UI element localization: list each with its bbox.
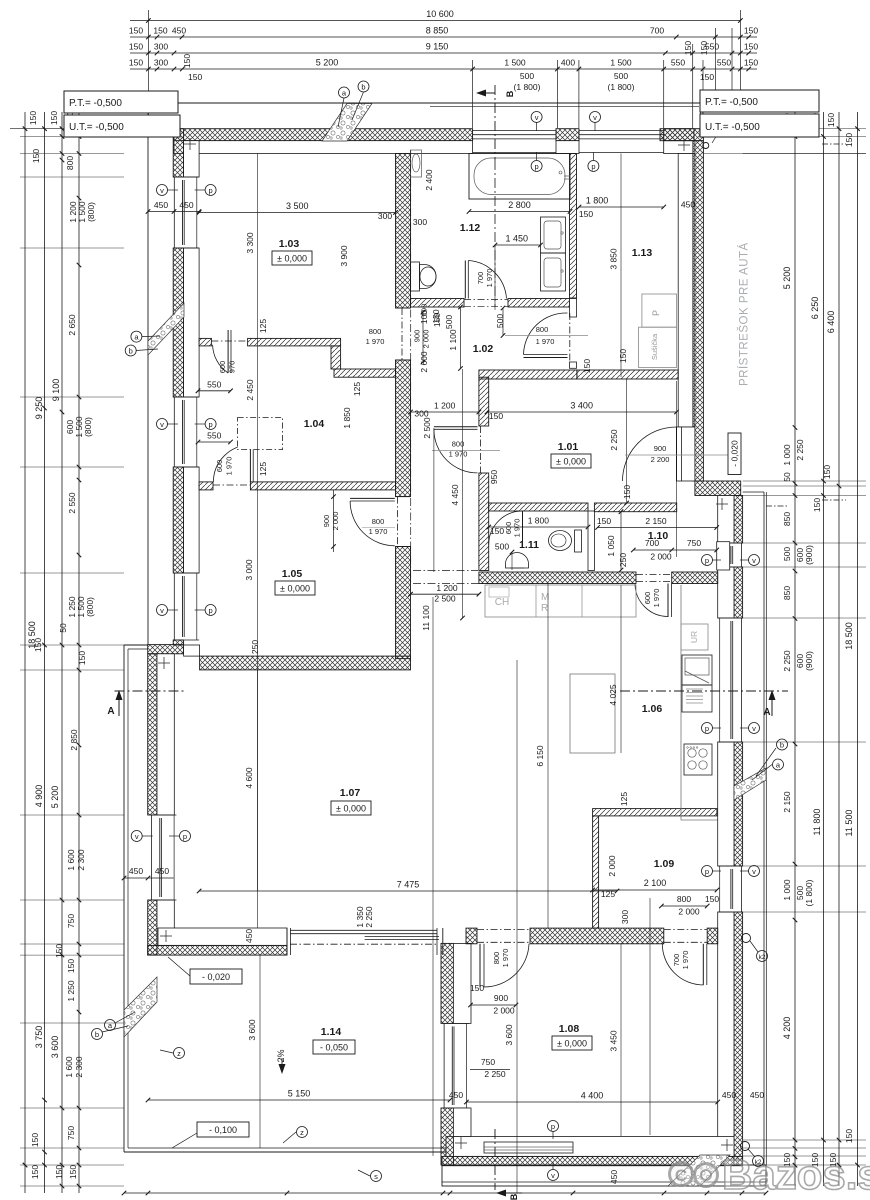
svg-text:k2: k2 bbox=[759, 954, 766, 961]
marker circles terrace window 1.07 bbox=[275, 995, 277, 997]
dim 2800 bathtub bbox=[469, 211, 570, 213]
wall 1.03|1.12 vertical (core wall) bbox=[396, 154, 411, 309]
svg-text:700: 700 bbox=[650, 26, 664, 36]
svg-text:125: 125 bbox=[601, 889, 615, 899]
dim 3500 room 1.03 bbox=[199, 212, 395, 214]
gravel band left wall with callout a b bbox=[148, 303, 184, 355]
window right wall W9 (1.09) bbox=[730, 869, 732, 909]
entrance door opening right wall bbox=[677, 427, 695, 481]
svg-text:250: 250 bbox=[618, 553, 628, 567]
svg-text:b: b bbox=[129, 347, 133, 356]
svg-text:A: A bbox=[763, 707, 770, 718]
right horizontal extension lines bbox=[743, 136, 866, 138]
svg-text:1 970: 1 970 bbox=[366, 337, 385, 346]
svg-text:b: b bbox=[780, 741, 784, 750]
svg-text:1 250: 1 250 bbox=[66, 980, 76, 1002]
window left wall W5 (1.05) bbox=[173, 573, 175, 640]
partition 1.13 south P11 bbox=[577, 370, 678, 379]
svg-text:11 100: 11 100 bbox=[421, 605, 431, 631]
svg-text:1 600: 1 600 bbox=[64, 1056, 74, 1078]
svg-text:450: 450 bbox=[681, 200, 695, 210]
svg-text:150: 150 bbox=[182, 54, 192, 68]
wall exterior right lower - insulation bbox=[734, 496, 743, 544]
svg-text:1.01: 1.01 bbox=[558, 441, 579, 453]
svg-text:150: 150 bbox=[129, 26, 143, 36]
wall 1.04|hall vertical segment below door1 bbox=[396, 360, 411, 497]
svg-text:1 450: 1 450 bbox=[505, 234, 528, 244]
corridor wall axis dashdot lines bbox=[413, 570, 478, 572]
svg-text:800: 800 bbox=[369, 327, 382, 336]
svg-text:3 900: 3 900 bbox=[339, 245, 349, 267]
svg-text:PRÍSTREŠOK PRE AUTÁ: PRÍSTREŠOK PRE AUTÁ bbox=[738, 242, 751, 386]
svg-text:150: 150 bbox=[579, 209, 593, 219]
svg-text:p: p bbox=[705, 724, 709, 733]
svg-text:2 000: 2 000 bbox=[607, 855, 617, 877]
svg-text:700: 700 bbox=[672, 954, 681, 967]
watermark Bazos.sk bbox=[670, 1151, 870, 1198]
svg-text:550: 550 bbox=[207, 379, 221, 389]
svg-text:500: 500 bbox=[520, 71, 534, 81]
svg-text:150: 150 bbox=[153, 26, 167, 36]
svg-text:1.06: 1.06 bbox=[642, 703, 663, 715]
toilet 1.12 bbox=[411, 262, 420, 291]
door 1.02 to 1.12 swing bbox=[464, 299, 508, 301]
room 1.08 level box bbox=[552, 1036, 592, 1050]
right chain ticks bbox=[793, 134, 798, 139]
svg-text:z: z bbox=[177, 1049, 181, 1058]
svg-text:500: 500 bbox=[444, 315, 454, 329]
terrace / lower roof outline left (double line) bbox=[123, 645, 125, 1152]
svg-text:1 970: 1 970 bbox=[225, 457, 234, 476]
svg-text:Sušička: Sušička bbox=[650, 333, 659, 360]
marker circles left wall windows bbox=[157, 185, 168, 196]
dryer Susicka box 1.13 bbox=[639, 327, 677, 367]
svg-text:v: v bbox=[160, 606, 164, 615]
svg-text:11 800: 11 800 bbox=[812, 809, 822, 836]
svg-text:800: 800 bbox=[65, 156, 75, 170]
svg-text:5 200: 5 200 bbox=[316, 58, 339, 68]
svg-text:2 250: 2 250 bbox=[782, 650, 792, 672]
level table P.T. U.T. right bbox=[700, 90, 819, 112]
entrance door leaf and swing bbox=[676, 427, 678, 481]
wall exterior left lower - insulation bbox=[148, 654, 157, 815]
wall south of living 1.07 - masonry bbox=[158, 928, 287, 945]
svg-text:3 000: 3 000 bbox=[244, 559, 254, 581]
svg-text:900: 900 bbox=[654, 444, 667, 453]
svg-text:150: 150 bbox=[826, 113, 836, 127]
svg-text:1 800: 1 800 bbox=[586, 196, 609, 206]
svg-text:11 500: 11 500 bbox=[844, 810, 854, 837]
oven stack bbox=[682, 655, 712, 685]
svg-text:150: 150 bbox=[744, 58, 758, 68]
svg-text:600: 600 bbox=[643, 592, 652, 605]
wall exterior bottom (1.08) - masonry bbox=[446, 1137, 734, 1157]
svg-text:C: C bbox=[675, 1166, 687, 1185]
svg-text:18 500: 18 500 bbox=[844, 622, 854, 650]
svg-text:500: 500 bbox=[782, 547, 792, 561]
dim 450 450 at window W3 bbox=[148, 211, 199, 213]
svg-text:100: 100 bbox=[419, 310, 429, 324]
toilet 1.11 bbox=[575, 530, 582, 552]
svg-text:1 970: 1 970 bbox=[501, 949, 510, 968]
svg-text:150: 150 bbox=[618, 349, 628, 363]
svg-text:± 0,000: ± 0,000 bbox=[557, 1039, 587, 1049]
svg-text:300: 300 bbox=[154, 58, 168, 68]
svg-text:18 500: 18 500 bbox=[27, 621, 37, 649]
svg-text:1.12: 1.12 bbox=[460, 222, 481, 234]
washbasin 1.12 top-left bbox=[411, 150, 422, 177]
svg-text:3 400: 3 400 bbox=[570, 401, 593, 411]
svg-text:v: v bbox=[160, 186, 164, 195]
marker z terrace 2 bbox=[297, 1127, 308, 1138]
partition hall north P3 bbox=[479, 370, 577, 379]
bathtub 1.12 bbox=[469, 154, 570, 200]
door 1.02-1.13 leaf and swing bbox=[524, 354, 568, 356]
svg-text:550: 550 bbox=[671, 58, 685, 68]
svg-text:1.13: 1.13 bbox=[632, 247, 653, 259]
section line B top bbox=[494, 85, 496, 160]
svg-text:4 025: 4 025 bbox=[608, 684, 618, 706]
dim 1800 room 1.13 bbox=[579, 206, 664, 208]
svg-text:U.T.= -0,500: U.T.= -0,500 bbox=[705, 122, 760, 133]
svg-text:50: 50 bbox=[58, 623, 68, 633]
svg-text:1 050: 1 050 bbox=[606, 535, 616, 557]
dim 1200 2500 corridor bbox=[411, 593, 479, 595]
svg-text:150: 150 bbox=[822, 465, 832, 479]
svg-text:p: p bbox=[591, 162, 595, 171]
svg-text:150: 150 bbox=[49, 111, 59, 125]
svg-text:450: 450 bbox=[750, 1090, 764, 1100]
partition 1.11 north bbox=[489, 503, 588, 511]
svg-text:150: 150 bbox=[582, 359, 592, 373]
wall between kitchen/1.09 and 1.08 bbox=[466, 928, 477, 944]
svg-text:7 475: 7 475 bbox=[397, 880, 420, 890]
svg-text:550: 550 bbox=[207, 431, 221, 441]
svg-text:2 250: 2 250 bbox=[609, 429, 619, 451]
room 1.03 level box bbox=[272, 251, 312, 265]
svg-text:p: p bbox=[535, 162, 539, 171]
dimension chain left outer 18500 bbox=[24, 112, 26, 1193]
wall exterior right lower - masonry bbox=[718, 496, 734, 544]
svg-text:150: 150 bbox=[129, 58, 143, 68]
svg-text:- 0,100: - 0,100 bbox=[209, 1125, 237, 1135]
svg-text:2 000: 2 000 bbox=[422, 330, 431, 349]
partition hall|1.11 vertical bbox=[479, 377, 489, 426]
svg-text:2 250: 2 250 bbox=[795, 439, 805, 461]
svg-text:(900): (900) bbox=[804, 651, 814, 671]
svg-text:150: 150 bbox=[470, 983, 484, 993]
wall exterior right upper - masonry bbox=[678, 154, 695, 428]
door 1.05 leaf and swing bbox=[350, 497, 395, 499]
svg-text:B: B bbox=[509, 1193, 519, 1200]
svg-text:150: 150 bbox=[700, 72, 714, 82]
roof outline top and upper-left bbox=[148, 102, 702, 104]
right dashdot reference marks bbox=[822, 143, 846, 145]
svg-text:1 970: 1 970 bbox=[681, 951, 690, 970]
svg-text:850: 850 bbox=[782, 512, 792, 526]
svg-text:P.T.= -0,500: P.T.= -0,500 bbox=[705, 97, 758, 108]
room 1.01 level box bbox=[551, 454, 591, 468]
svg-text:150: 150 bbox=[812, 498, 822, 512]
wall exterior left upper - insulation bbox=[173, 129, 183, 177]
svg-text:900: 900 bbox=[494, 993, 508, 1003]
svg-text:150: 150 bbox=[188, 72, 202, 82]
washer P box 1.13 bbox=[642, 294, 677, 327]
svg-text:150: 150 bbox=[68, 1165, 78, 1179]
svg-text:2 000: 2 000 bbox=[331, 512, 340, 531]
partition 1.11|1.10 vertical bbox=[588, 511, 594, 571]
svg-text:1.11: 1.11 bbox=[519, 539, 539, 551]
svg-text:- 0,020: - 0,020 bbox=[202, 972, 230, 982]
partition 1.03|1.04 P1 bbox=[199, 338, 211, 346]
svg-text:A: A bbox=[107, 706, 114, 717]
svg-text:(1 800): (1 800) bbox=[804, 879, 814, 906]
svg-text:1.04: 1.04 bbox=[304, 418, 325, 430]
svg-text:150: 150 bbox=[844, 133, 854, 147]
svg-text:600: 600 bbox=[218, 361, 227, 374]
kitchen north wall P4 bbox=[479, 572, 636, 584]
wall right jog horizontal bbox=[695, 481, 741, 496]
svg-text:1 970: 1 970 bbox=[485, 269, 494, 288]
svg-text:2 000: 2 000 bbox=[493, 1006, 515, 1016]
svg-text:v: v bbox=[535, 113, 539, 122]
svg-text:5 200: 5 200 bbox=[782, 267, 792, 290]
svg-text:s: s bbox=[374, 1172, 378, 1181]
svg-text:1 100: 1 100 bbox=[448, 329, 458, 351]
svg-text:B: B bbox=[505, 90, 515, 97]
svg-text:1 500: 1 500 bbox=[610, 58, 632, 68]
svg-text:300: 300 bbox=[620, 910, 630, 924]
dim verticals room 1.03 bbox=[257, 154, 259, 892]
svg-text:6 400: 6 400 bbox=[826, 311, 836, 334]
svg-text:750: 750 bbox=[66, 1126, 76, 1140]
svg-text:1.07: 1.07 bbox=[340, 787, 361, 799]
svg-text:150: 150 bbox=[844, 1129, 854, 1143]
svg-text:850: 850 bbox=[782, 586, 792, 600]
wall west of 1.08 - lower bbox=[441, 1108, 453, 1165]
svg-text:450: 450 bbox=[179, 200, 193, 210]
svg-text:150: 150 bbox=[744, 26, 758, 36]
svg-text:(800): (800) bbox=[86, 202, 96, 222]
svg-text:3 600: 3 600 bbox=[50, 1036, 60, 1059]
partition P1 jog bbox=[331, 346, 341, 369]
pavement strip bottom right bbox=[442, 1165, 766, 1186]
svg-text:1 500: 1 500 bbox=[504, 58, 526, 68]
svg-text:450: 450 bbox=[172, 26, 186, 36]
level box -0,020 bottom-left bbox=[190, 969, 242, 984]
svg-text:2 200: 2 200 bbox=[651, 455, 670, 464]
svg-text:1.14: 1.14 bbox=[321, 1026, 342, 1038]
door to 1.11 swing bbox=[488, 503, 490, 545]
dimension chain top row segments bbox=[130, 68, 757, 70]
kitchen right counter line bbox=[680, 585, 682, 820]
svg-text:300: 300 bbox=[378, 211, 392, 221]
svg-text:400: 400 bbox=[561, 58, 575, 68]
svg-text:10 600: 10 600 bbox=[426, 9, 454, 19]
partition 1.09 north bbox=[593, 809, 717, 816]
svg-text:1 970: 1 970 bbox=[536, 337, 555, 346]
svg-text:5 150: 5 150 bbox=[288, 1089, 311, 1099]
svg-text:R: R bbox=[541, 603, 548, 614]
svg-text:b: b bbox=[361, 83, 365, 92]
svg-text:(900): (900) bbox=[804, 545, 814, 565]
svg-text:v: v bbox=[593, 113, 597, 122]
window top wall W2 (1.13) bbox=[579, 130, 664, 132]
svg-text:2 650: 2 650 bbox=[67, 314, 77, 336]
svg-text:± 0,000: ± 0,000 bbox=[280, 584, 310, 594]
svg-text:5 200: 5 200 bbox=[50, 786, 60, 809]
cooktop bbox=[684, 744, 712, 775]
svg-text:450: 450 bbox=[129, 866, 143, 876]
svg-text:1.10: 1.10 bbox=[648, 530, 669, 542]
svg-text:p: p bbox=[209, 606, 213, 615]
svg-text:150: 150 bbox=[54, 1165, 64, 1179]
carport column K2 pavement corner bbox=[741, 1142, 750, 1151]
svg-text:125: 125 bbox=[258, 462, 268, 476]
svg-text:P.T.= -0,500: P.T.= -0,500 bbox=[69, 98, 122, 109]
svg-text:450: 450 bbox=[244, 929, 254, 943]
svg-text:2 400: 2 400 bbox=[424, 169, 434, 191]
svg-text:2 250: 2 250 bbox=[484, 1069, 506, 1079]
dim 1450 vanity bbox=[495, 244, 541, 246]
corner cross marks bbox=[184, 143, 196, 145]
svg-text:1 800: 1 800 bbox=[528, 516, 550, 526]
svg-text:p: p bbox=[705, 556, 709, 565]
svg-text:450: 450 bbox=[609, 1170, 619, 1184]
window right wall W7 (1.10) bbox=[730, 546, 732, 564]
window top wall W1 (1.12) bbox=[473, 130, 556, 132]
svg-text:450: 450 bbox=[722, 1090, 736, 1100]
dimension chain bottom bbox=[124, 1192, 766, 1194]
wall south 1.05 horizontal bbox=[200, 656, 411, 670]
dim room 1.14 bbox=[148, 1099, 450, 1101]
svg-text:v: v bbox=[551, 1171, 555, 1180]
svg-text:450: 450 bbox=[154, 200, 168, 210]
svg-text:150: 150 bbox=[622, 485, 632, 499]
svg-text:300: 300 bbox=[414, 409, 428, 419]
gravel band east wall with callout a b bbox=[734, 768, 766, 800]
svg-text:p: p bbox=[183, 832, 187, 841]
svg-text:z: z bbox=[300, 1128, 304, 1137]
level box -0,020 right (rotated) bbox=[728, 433, 741, 475]
wall south of living 1.07 - insulation bbox=[148, 945, 287, 955]
svg-text:(1 800): (1 800) bbox=[514, 82, 541, 92]
svg-text:(800): (800) bbox=[85, 597, 95, 617]
dimension chain top row 10600 bbox=[130, 20, 740, 22]
svg-text:150: 150 bbox=[683, 41, 693, 55]
svg-text:8 850: 8 850 bbox=[426, 26, 449, 36]
svg-text:2 550: 2 550 bbox=[67, 492, 77, 514]
svg-text:3 850: 3 850 bbox=[609, 248, 619, 270]
svg-text:450: 450 bbox=[155, 866, 169, 876]
door 1.06 to 1.08 bbox=[477, 929, 530, 931]
svg-text:9 250: 9 250 bbox=[34, 397, 44, 420]
partition 1.10 north bbox=[594, 503, 676, 512]
door 1.02 to 1.03 bbox=[395, 314, 397, 354]
svg-text:p: p bbox=[209, 420, 213, 429]
svg-text:3 600: 3 600 bbox=[504, 1024, 514, 1046]
room 1.14 level box bbox=[313, 1040, 355, 1054]
marker s bottom bbox=[371, 1171, 382, 1182]
section line A-A right bbox=[620, 690, 788, 692]
svg-text:500: 500 bbox=[495, 542, 509, 552]
svg-text:4 600: 4 600 bbox=[244, 767, 254, 789]
level table P.T. U.T. left bbox=[64, 91, 178, 113]
svg-text:4 200: 4 200 bbox=[782, 1017, 792, 1040]
sidewalk second line east bbox=[765, 492, 767, 1165]
door 1.04-1.05 leaf and swing bbox=[249, 445, 251, 482]
room 1.07 level box bbox=[331, 801, 371, 815]
kitchen island bbox=[570, 674, 615, 753]
wall exterior top - masonry bbox=[174, 141, 473, 154]
svg-text:3 300: 3 300 bbox=[245, 232, 255, 254]
svg-text:2 250: 2 250 bbox=[364, 906, 374, 928]
svg-text:900: 900 bbox=[322, 515, 331, 528]
gravel band top wall with callout a b bbox=[322, 104, 372, 142]
window left wall W3 (1.03) bbox=[173, 177, 175, 248]
svg-text:v: v bbox=[135, 832, 139, 841]
svg-text:p: p bbox=[551, 1122, 555, 1131]
svg-text:2 800: 2 800 bbox=[508, 200, 531, 210]
svg-text:125: 125 bbox=[258, 319, 268, 333]
svg-text:1 000: 1 000 bbox=[782, 444, 792, 466]
svg-text:3 750: 3 750 bbox=[34, 1026, 44, 1049]
svg-text:1.03: 1.03 bbox=[279, 238, 300, 250]
wall exterior right upper - insulation bbox=[693, 141, 704, 481]
svg-text:800: 800 bbox=[372, 517, 385, 526]
door hall to nook (800/1970) bbox=[480, 426, 482, 473]
svg-text:500: 500 bbox=[614, 71, 628, 81]
washbasin 1.11 bbox=[506, 553, 529, 569]
svg-text:1 970: 1 970 bbox=[513, 519, 522, 538]
marker circles top wall windows bbox=[531, 112, 542, 123]
wall stub top-right protrusion bbox=[660, 129, 694, 141]
dim 3400 room 1.13 bottom / hall bbox=[487, 411, 677, 413]
svg-text:970: 970 bbox=[228, 361, 237, 374]
svg-text:1.08: 1.08 bbox=[559, 1023, 580, 1035]
carport column K2 bottom bbox=[742, 934, 751, 943]
svg-text:50: 50 bbox=[782, 472, 792, 482]
svg-text:(800): (800) bbox=[83, 417, 93, 437]
window left wall W6 (1.07) bbox=[151, 815, 153, 900]
svg-text:U.T.= -0,500: U.T.= -0,500 bbox=[69, 122, 124, 133]
wall 1.05|corridor vertical segment bbox=[396, 547, 411, 659]
dimension chain top row 8850 bbox=[130, 36, 757, 38]
room 1.05 level box bbox=[275, 581, 315, 595]
svg-text:150: 150 bbox=[489, 411, 503, 421]
svg-text:3 500: 3 500 bbox=[286, 201, 309, 211]
svg-text:v: v bbox=[752, 556, 756, 565]
terrace sliding window 1.07 bbox=[286, 928, 288, 955]
dim room 1.09 bbox=[593, 889, 717, 891]
svg-text:3 600: 3 600 bbox=[247, 1019, 257, 1041]
svg-text:300: 300 bbox=[154, 42, 168, 52]
svg-text:6 150: 6 150 bbox=[535, 745, 545, 767]
svg-text:p: p bbox=[705, 867, 709, 876]
svg-text:4 900: 4 900 bbox=[34, 785, 44, 808]
wall exterior top - insulation bbox=[174, 129, 473, 141]
svg-text:125: 125 bbox=[619, 792, 629, 806]
wall 1.02|1.13 vertical bbox=[570, 154, 577, 299]
section line A-A left bbox=[115, 690, 187, 692]
svg-text:2 500: 2 500 bbox=[434, 594, 456, 604]
svg-text:150: 150 bbox=[432, 313, 442, 327]
marker circles east wall windows bbox=[702, 555, 713, 566]
svg-text:2 300: 2 300 bbox=[74, 1056, 84, 1078]
window right wall W8 (kitchen 1.06) bbox=[730, 621, 732, 739]
svg-text:2 450: 2 450 bbox=[245, 379, 255, 401]
svg-text:150: 150 bbox=[77, 651, 87, 665]
